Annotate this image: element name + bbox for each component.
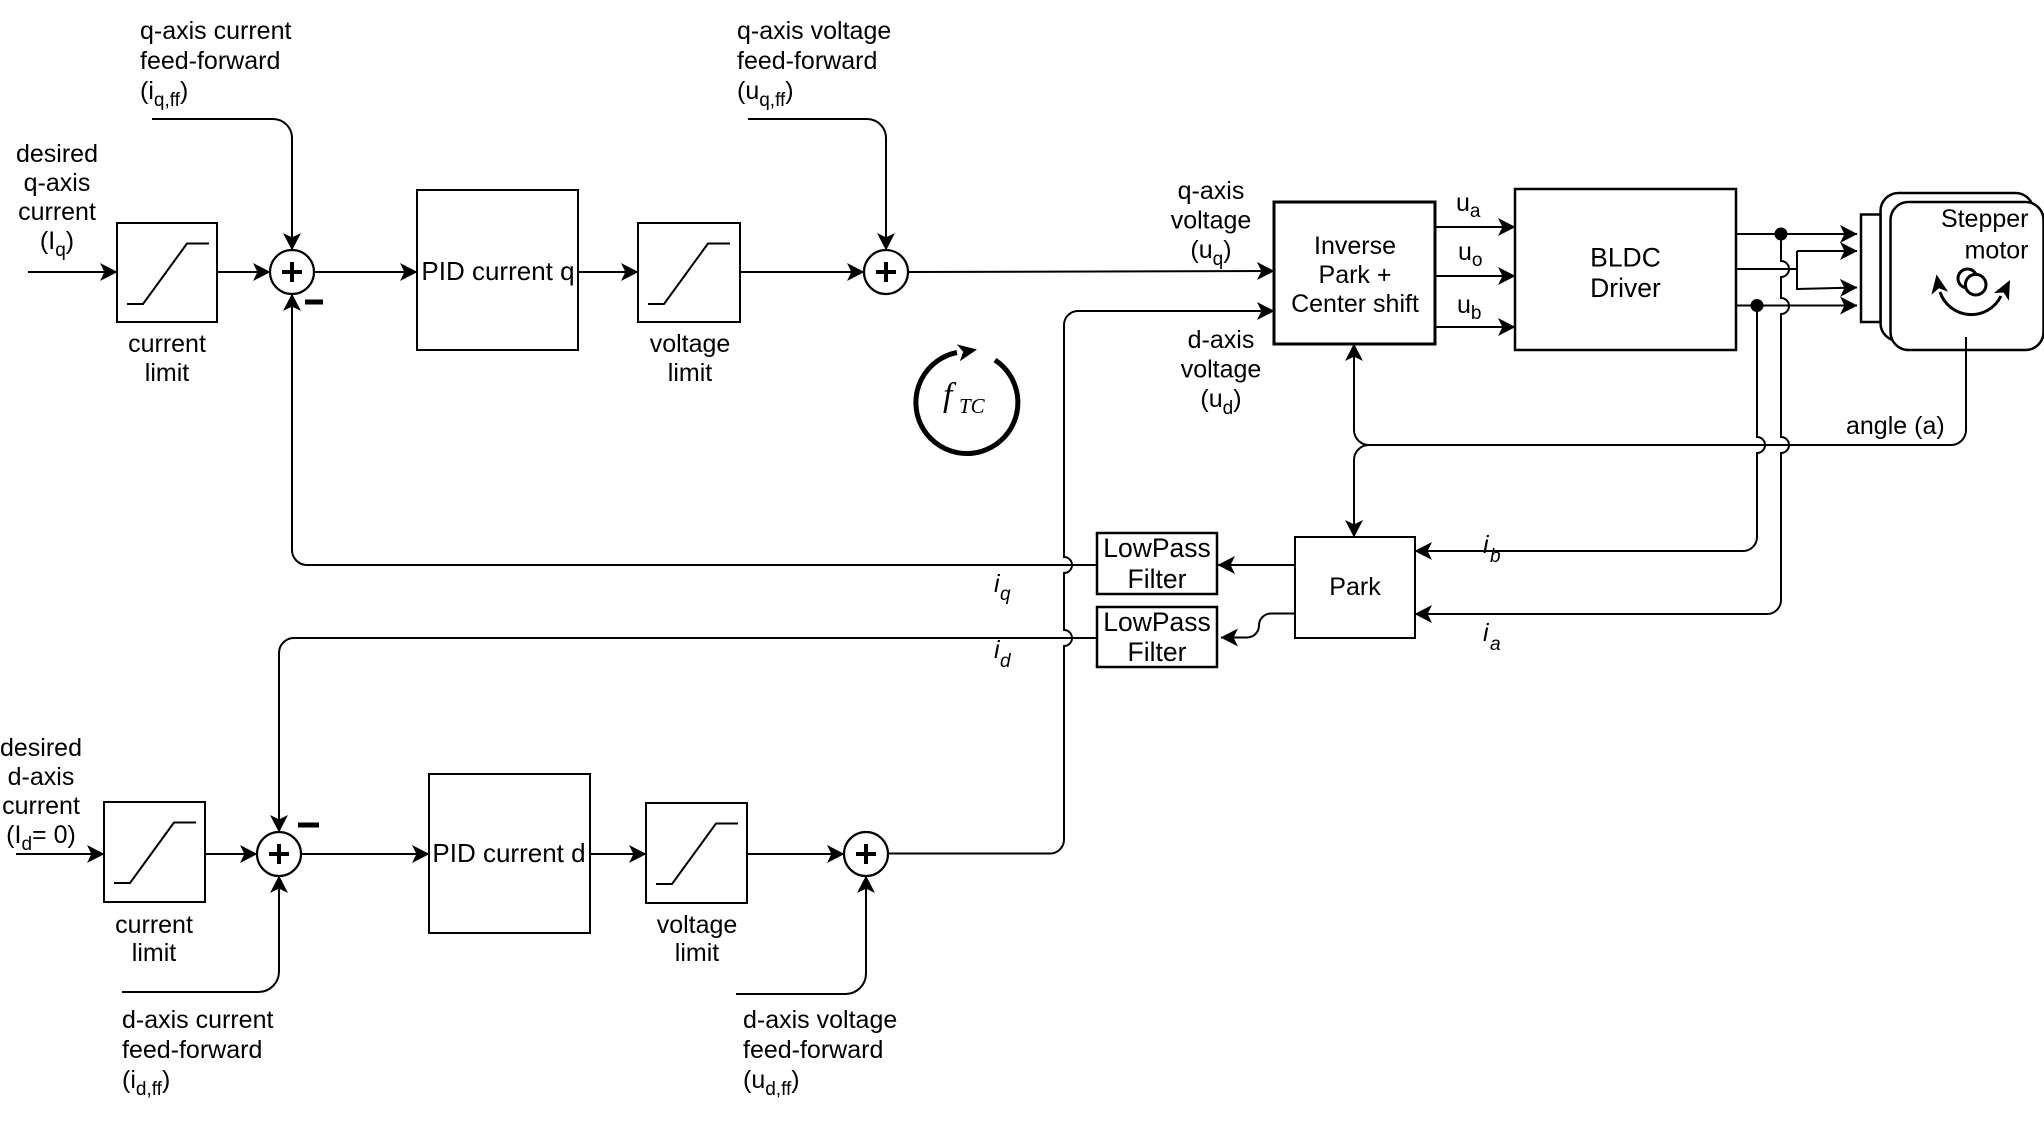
- svg-text:current: current: [115, 911, 193, 939]
- svg-text:q-axis: q-axis: [24, 169, 91, 197]
- svg-text:a: a: [1490, 634, 1501, 655]
- svg-text:BLDC: BLDC: [1590, 243, 1661, 273]
- svg-text:Center shift: Center shift: [1291, 290, 1419, 318]
- svg-text:PID current q: PID current q: [421, 256, 574, 286]
- svg-text:feed-forward: feed-forward: [140, 47, 280, 75]
- svg-text:b: b: [1490, 546, 1501, 567]
- svg-text:current: current: [2, 792, 80, 820]
- svg-text:q: q: [1000, 584, 1011, 605]
- svg-text:motor: motor: [1965, 237, 2029, 265]
- svg-text:limit: limit: [132, 939, 176, 967]
- svg-text:d-axis voltage: d-axis voltage: [743, 1006, 897, 1034]
- svg-text:voltage: voltage: [1171, 207, 1252, 235]
- svg-text:Park +: Park +: [1319, 261, 1392, 289]
- svg-text:d-axis: d-axis: [1188, 326, 1255, 354]
- svg-text:Park: Park: [1329, 573, 1381, 601]
- svg-text:angle (a): angle (a): [1846, 412, 1945, 440]
- svg-text:Filter: Filter: [1128, 637, 1187, 667]
- svg-text:limit: limit: [145, 359, 189, 387]
- svg-text:q-axis voltage: q-axis voltage: [737, 17, 891, 45]
- svg-text:q-axis: q-axis: [1178, 177, 1245, 205]
- svg-text:voltage: voltage: [1181, 356, 1262, 384]
- svg-text:voltage: voltage: [657, 911, 738, 939]
- svg-text:feed-forward: feed-forward: [122, 1036, 262, 1064]
- svg-text:desired: desired: [0, 734, 82, 762]
- svg-text:PID current d: PID current d: [432, 838, 585, 868]
- svg-text:feed-forward: feed-forward: [743, 1036, 883, 1064]
- svg-text:LowPass: LowPass: [1103, 607, 1211, 637]
- svg-text:q-axis current: q-axis current: [140, 17, 291, 45]
- svg-text:feed-forward: feed-forward: [737, 47, 877, 75]
- svg-text:limit: limit: [675, 939, 719, 967]
- svg-text:d: d: [1000, 651, 1012, 672]
- svg-text:voltage: voltage: [650, 330, 731, 358]
- svg-text:Driver: Driver: [1590, 273, 1661, 303]
- svg-text:desired: desired: [16, 140, 98, 168]
- svg-text:current: current: [128, 330, 206, 358]
- svg-text:limit: limit: [668, 359, 712, 387]
- svg-text:d-axis: d-axis: [8, 763, 75, 791]
- svg-text:current: current: [18, 198, 96, 226]
- svg-text:Inverse: Inverse: [1314, 232, 1396, 260]
- svg-text:Filter: Filter: [1128, 564, 1187, 594]
- svg-text:LowPass: LowPass: [1103, 533, 1211, 563]
- svg-text:Stepper: Stepper: [1941, 205, 2029, 233]
- svg-text:d-axis current: d-axis current: [122, 1006, 273, 1034]
- svg-text:TC: TC: [959, 394, 986, 418]
